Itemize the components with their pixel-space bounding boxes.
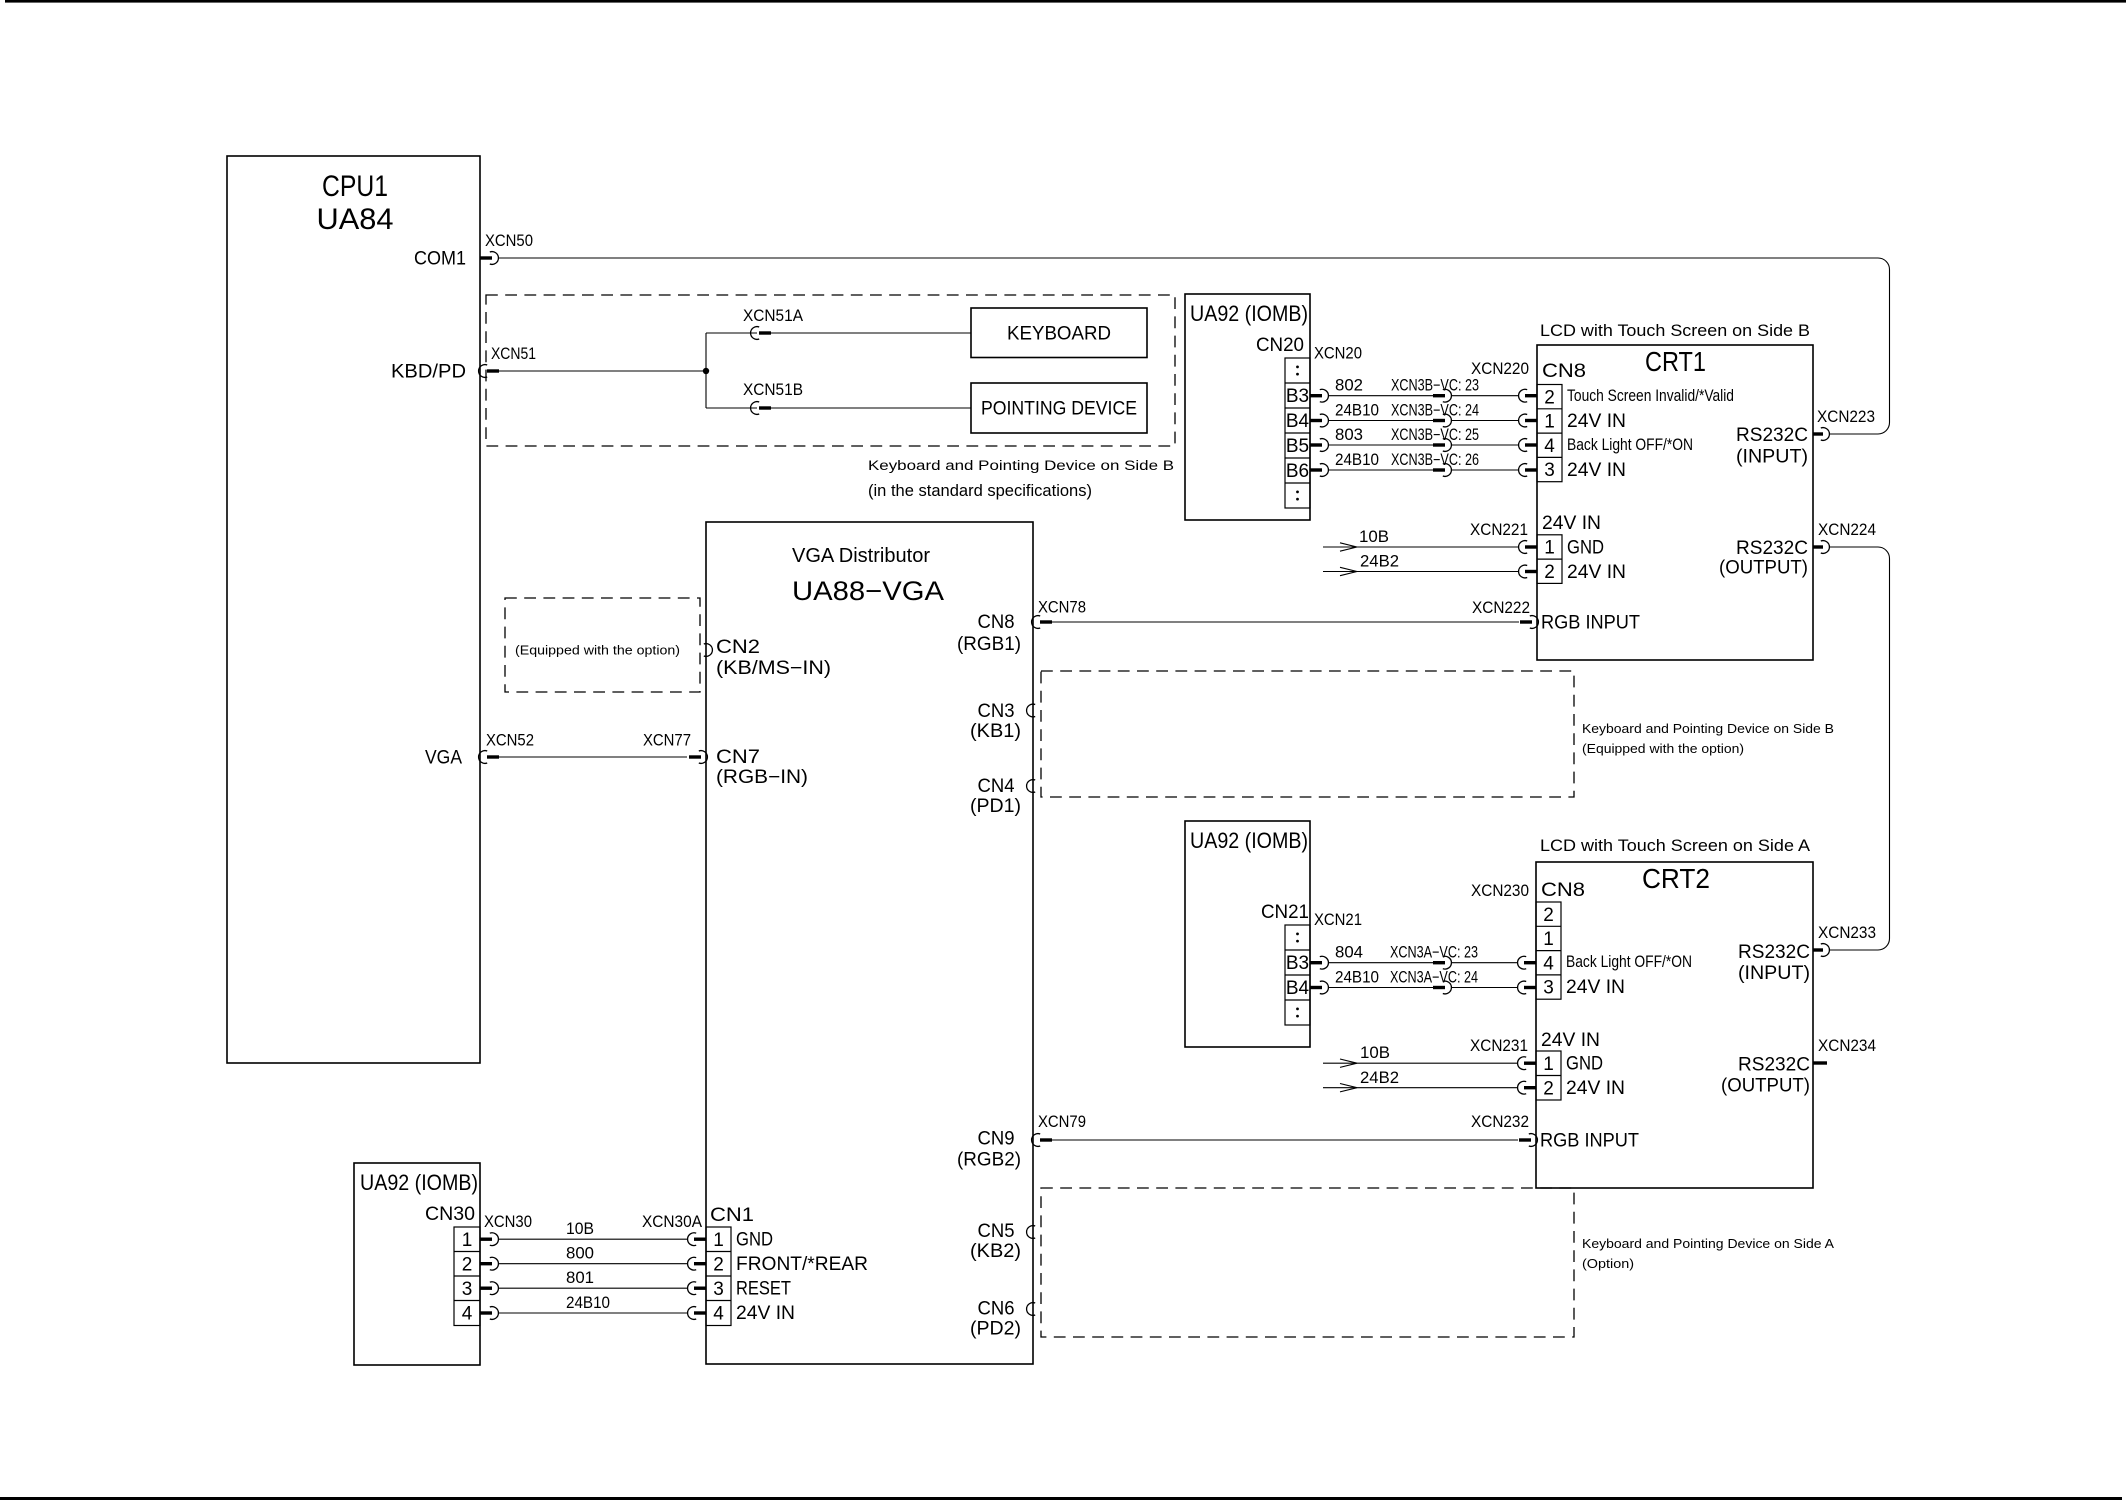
svg-text:(OUTPUT): (OUTPUT) [1721, 1076, 1810, 1097]
svg-text:4: 4 [1544, 436, 1555, 457]
svg-text:XCN30: XCN30 [484, 1213, 532, 1231]
wire CN20 B4 to CRT1 (24B10) [1310, 402, 1537, 427]
svg-text:24V IN: 24V IN [736, 1303, 795, 1324]
connector XCN234 stub [1813, 1037, 1876, 1063]
svg-text:XCN30A: XCN30A [642, 1213, 702, 1231]
svg-text:(INPUT): (INPUT) [1738, 963, 1810, 984]
pin label FRONT/*REAR [736, 1254, 868, 1275]
caption Keyboard and Pointing Device on Side A (option) [1582, 1237, 1835, 1271]
svg-text:3: 3 [462, 1279, 473, 1300]
svg-text:RS232C: RS232C [1738, 1055, 1810, 1076]
svg-text:UA92 (IOMB): UA92 (IOMB) [360, 1170, 478, 1195]
svg-text:(Equipped with the option): (Equipped with the option) [515, 643, 680, 658]
svg-text:XCN51: XCN51 [491, 345, 536, 363]
svg-text:(PD2): (PD2) [970, 1319, 1021, 1340]
pin RGB INPUT (CRT1) [1541, 613, 1640, 634]
label CN21 [1261, 902, 1309, 923]
svg-text:XCN3B−VC: 26: XCN3B−VC: 26 [1391, 451, 1479, 469]
connector strip CRT2 24V pins [1536, 1051, 1561, 1100]
svg-text:XCN221: XCN221 [1470, 521, 1528, 539]
svg-text:(RGB1): (RGB1) [957, 634, 1021, 655]
pin label GND (CRT1) [1567, 538, 1604, 559]
pin label GND (CRT2) [1566, 1054, 1603, 1075]
label CN20 [1256, 335, 1304, 356]
port label KBD/PD [391, 362, 466, 383]
block VGA Distributor UA88-VGA [706, 522, 1033, 1364]
svg-text:24V IN: 24V IN [1542, 513, 1601, 534]
caption LCD with Touch Screen on Side B [1540, 321, 1810, 340]
block CPU1 UA84 [227, 156, 480, 1063]
caption LCD with Touch Screen on Side A [1540, 836, 1811, 855]
svg-text:LCD with Touch Screen on Side: LCD with Touch Screen on Side B [1540, 321, 1810, 340]
pin RS232C (INPUT) CRT2 [1738, 942, 1810, 984]
svg-text:801: 801 [566, 1269, 594, 1287]
svg-text:XCN50: XCN50 [485, 232, 533, 250]
svg-text:KBD/PD: KBD/PD [391, 362, 466, 383]
svg-text:UA92 (IOMB): UA92 (IOMB) [1190, 828, 1308, 853]
connector CN5 arc [970, 1221, 1035, 1262]
svg-text:Back Light OFF/*ON: Back Light OFF/*ON [1567, 436, 1693, 454]
svg-text:(INPUT): (INPUT) [1736, 447, 1808, 468]
svg-text:(RGB2): (RGB2) [957, 1150, 1021, 1171]
label XCN20 [1314, 345, 1362, 363]
svg-text:XCN234: XCN234 [1818, 1037, 1876, 1055]
svg-text:COM1: COM1 [414, 249, 466, 270]
label XCN30 [484, 1213, 532, 1231]
label XCN21 [1314, 911, 1362, 929]
block POINTING DEVICE [971, 383, 1147, 433]
svg-text:XCN3B−VC: 25: XCN3B−VC: 25 [1391, 426, 1479, 444]
svg-text:2: 2 [1543, 1078, 1554, 1099]
pin RGB INPUT (CRT2) [1540, 1131, 1639, 1152]
label (RGB-IN) [716, 767, 808, 788]
connector CN4 arc [970, 776, 1035, 817]
label CN8 (CRT2) [1541, 880, 1585, 901]
port label COM1 [414, 249, 466, 270]
pin label 24V IN (CRT2 pin2) [1566, 1078, 1625, 1099]
svg-text:CN9: CN9 [978, 1129, 1015, 1150]
pin label 24V IN (CRT2 pin3) [1566, 977, 1625, 998]
svg-text:CN4: CN4 [978, 776, 1015, 797]
wire XCN51A to KEYBOARD [706, 307, 971, 339]
svg-text:CN30: CN30 [425, 1204, 475, 1225]
svg-text:CN2: CN2 [716, 637, 760, 658]
wire CN21 B3 to CRT2 (804) [1310, 944, 1536, 969]
wire XCN51B to POINTING DEVICE [706, 381, 971, 414]
svg-text:CN5: CN5 [978, 1221, 1015, 1242]
block UA92 (IOMB) top [1185, 294, 1310, 520]
svg-text:24B10: 24B10 [1335, 402, 1379, 420]
svg-text:(Option): (Option) [1582, 1257, 1634, 1271]
svg-text:XCN79: XCN79 [1038, 1113, 1086, 1131]
pin label 24V IN pin1 [1567, 411, 1626, 432]
svg-text:1: 1 [1543, 1054, 1554, 1075]
junction node [703, 333, 709, 408]
wire CN20 B6 to CRT1 (24B10) [1310, 451, 1537, 476]
svg-text:(Equipped with the option): (Equipped with the option) [1582, 742, 1744, 756]
svg-text:1: 1 [1543, 929, 1554, 950]
pin RS232C (OUTPUT) CRT2 [1721, 1055, 1810, 1097]
svg-text:GND: GND [1566, 1054, 1603, 1075]
connector strip CN21 pins [1285, 925, 1310, 1025]
connector CN6 arc [970, 1299, 1035, 1340]
block UA92 (IOMB) middle [1185, 821, 1310, 1047]
connector strip CRT2 CN8 pins [1536, 902, 1561, 999]
svg-text:XCN230: XCN230 [1471, 882, 1529, 900]
pin label GND [736, 1230, 773, 1251]
pin RS232C (INPUT) CRT1 [1736, 425, 1808, 468]
svg-text:24V IN: 24V IN [1566, 977, 1625, 998]
svg-text:24B10: 24B10 [566, 1294, 610, 1312]
port label VGA [425, 748, 462, 769]
svg-text:RGB INPUT: RGB INPUT [1541, 613, 1640, 634]
svg-text:B5: B5 [1286, 436, 1309, 457]
wire CN20 B3 to CRT1 (802) [1310, 377, 1537, 402]
wire XCN224 to XCN233 [1813, 521, 1890, 950]
wire CN30 pin 4 (24B10) [480, 1294, 706, 1319]
wire CN30 pin 3 (801) [480, 1269, 706, 1294]
svg-text:B4: B4 [1286, 978, 1310, 999]
svg-text:XCN51A: XCN51A [743, 307, 803, 325]
svg-text:2: 2 [713, 1254, 724, 1275]
svg-text:24B10: 24B10 [1335, 969, 1379, 987]
svg-text:XCN52: XCN52 [486, 732, 534, 750]
pin label 24V IN pin3 [1567, 460, 1626, 481]
svg-text:B4: B4 [1286, 411, 1310, 432]
svg-text:VGA: VGA [425, 748, 462, 769]
svg-text:Touch Screen Invalid/*Valid: Touch Screen Invalid/*Valid [1567, 387, 1734, 405]
svg-text:3: 3 [1544, 460, 1555, 481]
svg-text:XCN232: XCN232 [1471, 1113, 1529, 1131]
svg-text:XCN3A−VC: 23: XCN3A−VC: 23 [1390, 944, 1478, 962]
svg-text:(in the standard specification: (in the standard specifications) [868, 482, 1092, 500]
svg-text:24V IN: 24V IN [1541, 1030, 1600, 1051]
svg-text:KEYBOARD: KEYBOARD [1007, 324, 1111, 345]
svg-text:24V IN: 24V IN [1567, 562, 1626, 583]
svg-text:Keyboard and Pointing Device o: Keyboard and Pointing Device on Side B [1582, 722, 1834, 736]
svg-text:4: 4 [713, 1304, 724, 1325]
svg-text:2: 2 [462, 1254, 473, 1275]
pin label Back Light OFF/*ON [1567, 436, 1693, 454]
svg-text:24V IN: 24V IN [1566, 1078, 1625, 1099]
svg-text:RS232C: RS232C [1738, 942, 1810, 963]
svg-text:800: 800 [566, 1245, 594, 1263]
svg-text:1: 1 [462, 1230, 473, 1251]
svg-text:24B10: 24B10 [1335, 451, 1379, 469]
svg-text:CN8: CN8 [1542, 361, 1586, 382]
pin label Back Light OFF/*ON (CRT2) [1566, 953, 1692, 971]
svg-text:(RGB−IN): (RGB−IN) [716, 767, 808, 788]
svg-text:CN1: CN1 [710, 1205, 754, 1226]
wire 10B arrow to CRT1 [1323, 528, 1537, 553]
svg-text:XCN77: XCN77 [643, 732, 691, 750]
svg-text:(PD1): (PD1) [970, 796, 1021, 817]
svg-text:XCN21: XCN21 [1314, 911, 1362, 929]
svg-text:(KB2): (KB2) [970, 1241, 1021, 1262]
svg-text:B6: B6 [1286, 461, 1309, 482]
svg-text:4: 4 [1543, 953, 1554, 974]
wire COM1 XCN50 to XCN223 [480, 232, 1890, 434]
svg-text:UA92 (IOMB): UA92 (IOMB) [1190, 301, 1308, 326]
svg-text:XCN3B−VC: 24: XCN3B−VC: 24 [1391, 402, 1479, 420]
svg-text:RESET: RESET [736, 1279, 791, 1300]
svg-text:XCN231: XCN231 [1470, 1037, 1528, 1055]
label XCN231 [1470, 1037, 1528, 1055]
connector strip CRT1 CN8 pins [1537, 385, 1562, 482]
svg-text:803: 803 [1335, 426, 1363, 444]
svg-text:24B2: 24B2 [1360, 1069, 1399, 1087]
block UA92 (IOMB) bottom [354, 1163, 480, 1365]
svg-text:CN8: CN8 [978, 612, 1015, 633]
svg-text:CRT1: CRT1 [1645, 346, 1706, 377]
svg-text:XCN3B−VC: 23: XCN3B−VC: 23 [1391, 377, 1479, 395]
svg-text:1: 1 [713, 1230, 724, 1251]
svg-text:XCN233: XCN233 [1818, 924, 1876, 942]
wire CN9 XCN79 to XCN232 RGB INPUT [1032, 1113, 1538, 1146]
svg-text:1: 1 [1544, 412, 1555, 433]
pin label Touch Screen Invalid/*Valid [1567, 387, 1734, 405]
block KEYBOARD [971, 308, 1147, 358]
wire VGA XCN52 to XCN77 [479, 732, 708, 764]
block CRT2 [1536, 862, 1813, 1188]
label CN1 [710, 1205, 754, 1226]
wire KBD/PD XCN51 [479, 345, 706, 377]
wire CN8 XCN78 to XCN222 RGB INPUT [1032, 599, 1539, 629]
connector strip CN20 pins [1285, 358, 1310, 508]
label CN8 (CRT1) [1542, 361, 1586, 382]
svg-text:24B2: 24B2 [1360, 553, 1399, 571]
caption (in the standard specifications) [868, 482, 1092, 500]
connector CN2 arc [704, 637, 760, 658]
svg-text:B3: B3 [1286, 386, 1309, 407]
svg-text:3: 3 [1543, 978, 1554, 999]
svg-text:(KB1): (KB1) [970, 721, 1021, 742]
svg-text:XCN224: XCN224 [1818, 521, 1876, 539]
svg-text:XCN220: XCN220 [1471, 360, 1529, 378]
svg-text:XCN3A−VC: 24: XCN3A−VC: 24 [1390, 969, 1478, 987]
svg-text:GND: GND [736, 1230, 773, 1251]
svg-text:CN21: CN21 [1261, 902, 1309, 923]
connector strip CRT1 24V pins [1537, 535, 1562, 584]
caption Keyboard and Pointing Device on Side B (option) [1582, 722, 1834, 756]
label (KB/MS-IN) [716, 658, 831, 679]
svg-text:CN6: CN6 [978, 1299, 1015, 1320]
svg-text:UA84: UA84 [317, 203, 394, 236]
caption Keyboard and Pointing Device on Side B (standard) [868, 458, 1174, 473]
svg-text:24V IN: 24V IN [1567, 460, 1626, 481]
svg-text:10B: 10B [1359, 528, 1389, 546]
label XCN30A [642, 1213, 702, 1231]
svg-text:2: 2 [1544, 562, 1555, 583]
pin group header 24V IN (CRT2) [1541, 1030, 1600, 1051]
svg-text:4: 4 [462, 1304, 473, 1325]
svg-text:UA88−VGA: UA88−VGA [792, 576, 944, 606]
wire 10B arrow to CRT2 [1323, 1044, 1536, 1070]
svg-text:CPU1: CPU1 [322, 170, 388, 203]
svg-text:VGA Distributor: VGA Distributor [792, 545, 930, 567]
svg-text:XCN20: XCN20 [1314, 345, 1362, 363]
label XCN220 [1471, 360, 1529, 378]
svg-text:CN20: CN20 [1256, 335, 1304, 356]
svg-text:RS232C: RS232C [1736, 425, 1808, 446]
connector XCN233 [1813, 924, 1876, 956]
wire CN21 B4 to CRT2 (24B10) [1310, 969, 1536, 994]
svg-text:GND: GND [1567, 538, 1604, 559]
wire CN30 pin 2 (800) [480, 1245, 706, 1270]
svg-text:(OUTPUT): (OUTPUT) [1719, 558, 1808, 579]
svg-text:10B: 10B [566, 1220, 594, 1238]
wire 24B2 arrow to CRT1 [1323, 553, 1537, 578]
svg-text:XCN223: XCN223 [1817, 408, 1875, 426]
dashed box keyboard/pointing side A option [1041, 1188, 1574, 1337]
wire CN20 B5 to CRT1 (803) [1310, 426, 1537, 451]
connector XCN223 [1813, 408, 1875, 440]
svg-text:24V IN: 24V IN [1567, 411, 1626, 432]
svg-text:2: 2 [1544, 387, 1555, 408]
dashed box keyboard/pointing side B option [1041, 671, 1574, 797]
pin label 24V IN (CRT1 pin2) [1567, 562, 1626, 583]
pin RS232C (OUTPUT) CRT1 [1719, 538, 1808, 579]
svg-text:LCD with Touch Screen on Side: LCD with Touch Screen on Side A [1540, 836, 1811, 855]
svg-text:CN7: CN7 [716, 747, 760, 768]
label CN8 (RGB1) [957, 612, 1021, 655]
connector strip CN1 pins [706, 1227, 731, 1326]
svg-text:CRT2: CRT2 [1642, 863, 1710, 894]
svg-text:POINTING DEVICE: POINTING DEVICE [981, 399, 1137, 420]
dashed box keyboard/pointing standard [486, 295, 1175, 446]
svg-text:1: 1 [1544, 538, 1555, 559]
svg-text:3: 3 [713, 1279, 724, 1300]
label XCN221 [1470, 521, 1528, 539]
svg-text:804: 804 [1335, 944, 1363, 962]
label CN9 (RGB2) [957, 1129, 1021, 1171]
svg-text:XCN78: XCN78 [1038, 599, 1086, 617]
svg-text:CN8: CN8 [1541, 880, 1585, 901]
connector strip CN30 pins [454, 1227, 480, 1326]
pin group header 24V IN (CRT1) [1542, 513, 1601, 534]
wire 24B2 arrow to CRT2 [1323, 1069, 1536, 1094]
svg-text:RS232C: RS232C [1736, 538, 1808, 559]
block CRT1 [1537, 345, 1813, 660]
label CN30 [425, 1204, 475, 1225]
svg-text:10B: 10B [1360, 1044, 1390, 1062]
dashed box equipped-with-option [505, 598, 700, 692]
svg-text:CN3: CN3 [978, 701, 1015, 722]
pin label RESET [736, 1279, 791, 1300]
svg-text:XCN51B: XCN51B [743, 381, 803, 399]
svg-text:Keyboard and Pointing Device o: Keyboard and Pointing Device on Side B [868, 458, 1174, 473]
svg-text:B3: B3 [1286, 953, 1309, 974]
svg-text:Back Light OFF/*ON: Back Light OFF/*ON [1566, 953, 1692, 971]
svg-text:(KB/MS−IN): (KB/MS−IN) [716, 658, 831, 679]
wire CN30 pin 1 (10B) [480, 1220, 706, 1245]
svg-text:Keyboard and Pointing Device o: Keyboard and Pointing Device on Side A [1582, 1237, 1835, 1251]
svg-text:2: 2 [1543, 905, 1554, 926]
svg-text:FRONT/*REAR: FRONT/*REAR [736, 1254, 868, 1275]
connector CN3 arc [970, 701, 1035, 742]
svg-text:RGB INPUT: RGB INPUT [1540, 1131, 1639, 1152]
pin label 24V IN [736, 1303, 795, 1324]
svg-text:XCN222: XCN222 [1472, 599, 1530, 617]
svg-text:802: 802 [1335, 377, 1363, 395]
label XCN230 [1471, 882, 1529, 900]
label CN7 [716, 747, 760, 768]
